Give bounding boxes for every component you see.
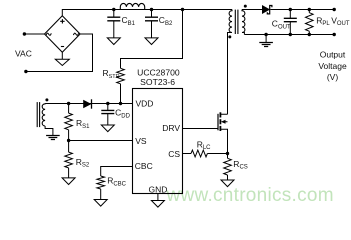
svg-text:CBC: CBC	[135, 161, 153, 171]
svg-text:(V): (V)	[327, 72, 339, 82]
svg-text:Voltage: Voltage	[318, 61, 347, 71]
svg-text:VDD: VDD	[136, 99, 154, 109]
svg-text:SOT23-6: SOT23-6	[140, 77, 175, 87]
svg-text:GND: GND	[148, 184, 167, 194]
svg-text:Output: Output	[320, 49, 346, 59]
svg-text:CS: CS	[168, 149, 180, 159]
svg-text:VS: VS	[135, 136, 147, 146]
svg-text:VAC: VAC	[15, 49, 32, 59]
svg-text:DRV: DRV	[162, 123, 180, 133]
svg-text:www.cntronics.com: www.cntronics.com	[166, 185, 334, 206]
